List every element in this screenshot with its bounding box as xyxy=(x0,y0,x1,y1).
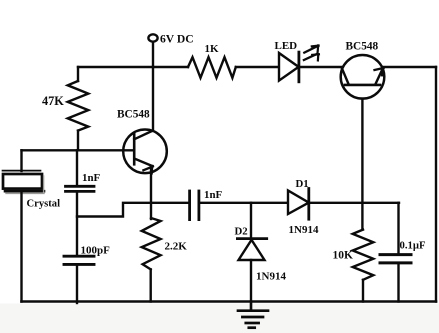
capacitor C3 1nF (coupling) xyxy=(188,191,191,220)
crystal X1 xyxy=(20,150,22,171)
svg-text:6V DC: 6V DC xyxy=(160,33,194,46)
svg-text:10K: 10K xyxy=(333,250,354,262)
wire Q2 to right edge xyxy=(382,66,436,68)
svg-text:Crystal: Crystal xyxy=(27,199,61,210)
LED arrow 1 xyxy=(304,46,317,52)
transistor Q1 BC548 (middle) xyxy=(123,130,167,174)
wire 1K to LED xyxy=(236,66,279,68)
wire Q2 base lead down xyxy=(361,99,363,230)
transistor Q2 BC548 (right, base down) xyxy=(341,55,385,99)
wire Q1 emitter down xyxy=(150,166,152,219)
svg-text:1nF: 1nF xyxy=(204,189,223,201)
power terminal 6V DC xyxy=(148,34,157,41)
wire top rail left segment xyxy=(78,66,188,68)
resistor R 47K xyxy=(68,81,89,131)
wire rail to 47K xyxy=(77,67,79,81)
svg-text:47K: 47K xyxy=(42,94,64,108)
capacitor C1 1nF (left) xyxy=(76,150,78,186)
svg-text:100pF: 100pF xyxy=(81,245,111,257)
wire D1 to RC xyxy=(309,202,399,204)
svg-text:1N914: 1N914 xyxy=(256,271,286,283)
wire cap junction to base network xyxy=(77,203,189,217)
LED arrow 2 xyxy=(304,54,317,60)
resistor R 1K xyxy=(188,57,236,78)
wire right edge down xyxy=(435,67,437,302)
capacitor C2 100pF xyxy=(64,255,94,258)
wire LED to Q2 xyxy=(299,66,343,68)
faint lower margin tint xyxy=(0,304,439,333)
wire bottom rail xyxy=(22,300,437,303)
svg-text:BC548: BC548 xyxy=(117,109,150,121)
wire C3 to D1 xyxy=(199,202,288,204)
resistor R 2.2K xyxy=(142,218,161,269)
resistor R 10K xyxy=(353,230,374,280)
svg-text:BC548: BC548 xyxy=(346,41,379,53)
svg-text:D2: D2 xyxy=(235,226,248,238)
svg-text:1nF: 1nF xyxy=(82,172,101,184)
svg-text:1K: 1K xyxy=(205,43,220,55)
svg-text:2.2K: 2.2K xyxy=(165,241,188,253)
diode D1 1N914 xyxy=(288,191,309,215)
wire base rail y150 xyxy=(22,149,135,151)
LED D3 xyxy=(279,53,299,81)
svg-text:0.1µF: 0.1µF xyxy=(400,240,427,252)
svg-text:D1: D1 xyxy=(296,178,309,190)
diode D2 1N914 xyxy=(250,203,252,239)
wire 47K to base rail xyxy=(77,131,79,151)
svg-text:1N914: 1N914 xyxy=(289,224,319,236)
wire Q1 collector up to rail xyxy=(152,67,154,131)
wire 10K to bottom rail xyxy=(362,280,364,302)
ground xyxy=(250,302,252,311)
wire terminal to rail xyxy=(152,42,154,67)
capacitor C4 0.1uF xyxy=(397,203,399,255)
wire 2.2K to bottom rail xyxy=(149,269,151,301)
svg-text:LED: LED xyxy=(275,40,298,52)
